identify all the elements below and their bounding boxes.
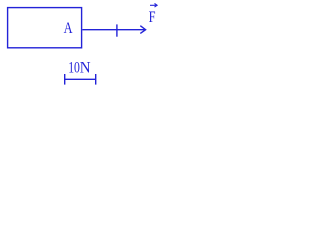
force line xyxy=(82,29,144,31)
block A (rectangle) xyxy=(8,8,82,48)
vector arrow over F xyxy=(150,4,156,6)
svg-text:A: A xyxy=(64,19,73,37)
scale bar line xyxy=(65,78,96,80)
svg-text:N: N xyxy=(80,59,91,77)
scale bar right tick xyxy=(95,74,97,85)
arrowhead of force F xyxy=(140,26,145,34)
svg-text:F: F xyxy=(149,8,156,26)
scale bar left tick xyxy=(64,74,66,85)
midpoint tick on force line xyxy=(116,24,118,36)
svg-text:10: 10 xyxy=(68,59,80,77)
